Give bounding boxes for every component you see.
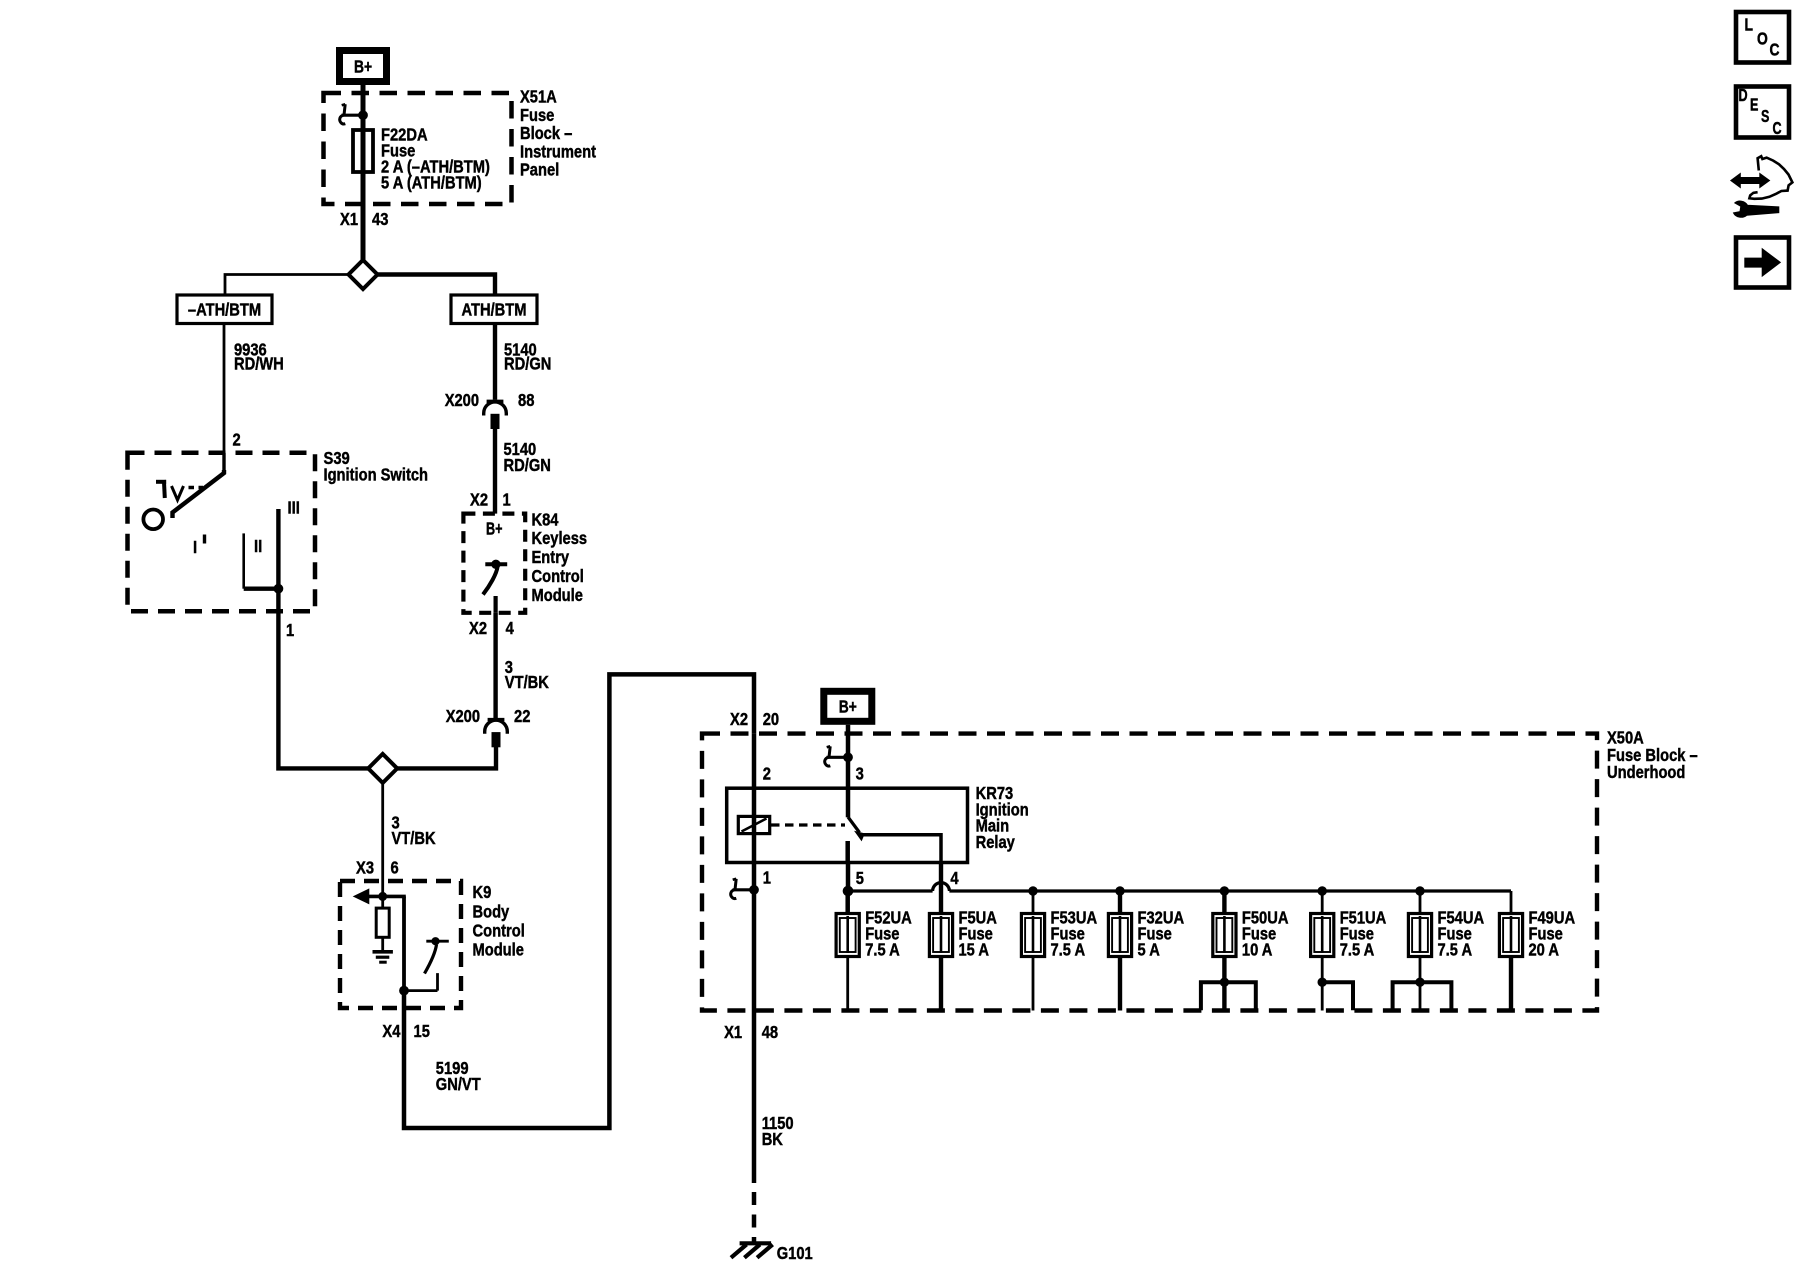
fuse F53UA 7.5A xyxy=(1021,891,1097,1011)
wire relay pin 1 to X1-48 xyxy=(752,863,757,1184)
splice S1 (diamond) xyxy=(349,260,378,289)
fuse block X51A dashed outline xyxy=(324,93,512,204)
svg-text:X2: X2 xyxy=(730,709,748,729)
LOC icon xyxy=(1736,12,1789,63)
connector X200 terminal 22 xyxy=(485,720,508,747)
svg-text:RD/WH: RD/WH xyxy=(234,354,284,374)
wire 9936 RD/WH from -ATH/BTM to ignition switch xyxy=(223,324,226,453)
svg-text:II: II xyxy=(254,536,262,556)
svg-text:43: 43 xyxy=(372,209,389,229)
power symbol B+ (relay feed) xyxy=(824,691,872,721)
svg-text:Module: Module xyxy=(532,585,584,605)
svg-text:X2: X2 xyxy=(469,618,487,638)
splice S2 (diamond) xyxy=(368,754,397,783)
svg-text:III: III xyxy=(288,498,300,518)
wire pin 2 into ignition switch xyxy=(222,453,225,472)
terminal staple below F51UA xyxy=(1318,978,1353,1010)
svg-text:88: 88 xyxy=(518,390,535,410)
svg-text:Fuse: Fuse xyxy=(520,105,555,125)
svg-text:Ignition Switch: Ignition Switch xyxy=(324,464,429,484)
fuse F50UA 10A xyxy=(1213,891,1289,1011)
svg-text:2: 2 xyxy=(763,764,771,784)
terminal of relay pin 1 circuit xyxy=(731,879,759,899)
fuse supply bus from pin 5 xyxy=(843,883,1511,896)
ignition switch S39 dashed outline xyxy=(128,453,316,612)
svg-text:4: 4 xyxy=(506,618,514,638)
label module K9 name xyxy=(473,882,525,960)
ground symbol inside K9 xyxy=(373,952,393,962)
label wire 3 VT/BK (lower) xyxy=(392,813,436,849)
junction on bus at F54UA xyxy=(1416,887,1424,895)
movable contact circle of S39 xyxy=(143,510,163,530)
svg-text:S: S xyxy=(1761,106,1769,126)
wire 3 VT/BK from splice S2 to body control module xyxy=(381,783,384,897)
svg-text:O: O xyxy=(1757,29,1768,49)
relay coil KR73 xyxy=(738,816,769,833)
label wire 5199 GN/VT xyxy=(436,1058,481,1094)
wire relay pin 4 to fuse F5UA xyxy=(939,863,943,914)
wire B+ to relay pin 3 xyxy=(846,725,851,788)
label wire 3 VT/BK (upper) xyxy=(505,657,549,692)
switch inside K9 xyxy=(404,938,449,991)
svg-text:3: 3 xyxy=(856,764,864,784)
label module K84 name xyxy=(532,509,588,605)
svg-text:Control: Control xyxy=(473,921,525,941)
svg-text:2: 2 xyxy=(233,429,241,449)
svg-text:Entry: Entry xyxy=(532,547,570,567)
pull-up resistor inside K9 xyxy=(376,896,389,950)
label wire 1150 BK xyxy=(762,1113,794,1149)
wire from X200-22 down to splice S2 xyxy=(397,747,496,769)
wire splice to ATH/BTM branch xyxy=(378,275,496,296)
svg-text:D: D xyxy=(1739,85,1748,105)
svg-text:ATH/BTM: ATH/BTM xyxy=(462,300,527,320)
ignition main relay KR73 outline xyxy=(727,788,968,862)
svg-text:VT/BK: VT/BK xyxy=(505,672,549,692)
pin label X1 43 xyxy=(340,209,389,229)
label connector X200 terminal 88 xyxy=(445,390,535,410)
svg-text:L: L xyxy=(1745,15,1754,35)
svg-text:G101: G101 xyxy=(777,1243,813,1263)
svg-text:20: 20 xyxy=(763,709,780,729)
svg-text:6: 6 xyxy=(391,858,399,878)
label connector X200 terminal 22 xyxy=(446,706,531,726)
fuse F52UA 7.5A xyxy=(836,891,912,1011)
node ATH/BTM xyxy=(451,295,537,324)
label wire 5140 RD/GN (lower) xyxy=(504,439,551,475)
pin label X2 20 of X50A xyxy=(730,709,779,729)
svg-text:Block –: Block – xyxy=(520,123,573,143)
svg-text:15 A: 15 A xyxy=(959,940,990,960)
pin label X2 1 of K84 xyxy=(470,489,511,509)
svg-text:Keyless: Keyless xyxy=(532,528,588,548)
svg-text:7.5 A: 7.5 A xyxy=(865,940,900,960)
svg-text:Relay: Relay xyxy=(976,832,1015,852)
svg-text:E: E xyxy=(1750,95,1758,115)
wire 5140 RD/GN from ATH/BTM to connector X200 xyxy=(493,324,497,400)
DESC icon xyxy=(1736,85,1789,138)
fuse F22DA body xyxy=(353,130,373,172)
svg-text:5 A: 5 A xyxy=(1138,940,1161,960)
svg-text:RD/GN: RD/GN xyxy=(504,354,551,374)
svg-text:15: 15 xyxy=(414,1021,431,1041)
svg-text:GN/VT: GN/VT xyxy=(436,1074,481,1094)
label switch S39 name xyxy=(324,448,429,484)
svg-text:Control: Control xyxy=(532,566,584,586)
wire inside K9 from input to switch xyxy=(400,896,409,995)
position contact II wire xyxy=(242,533,245,588)
pin label X2 4 of K84 xyxy=(469,618,514,638)
svg-text:5: 5 xyxy=(856,868,864,888)
pin label X4 15 of K9 xyxy=(382,1021,430,1041)
svg-text:K84: K84 xyxy=(532,509,559,529)
svg-text:X200: X200 xyxy=(445,390,480,410)
relay armature from pin 3 xyxy=(848,788,865,862)
junction on bus at F50UA xyxy=(1220,887,1228,895)
pin label X1 48 xyxy=(724,1022,778,1042)
label wire 9936 RD/WH xyxy=(234,340,284,374)
body control module K9 dashed outline xyxy=(340,881,461,1008)
label fuse F22DA value xyxy=(381,125,490,193)
svg-text:Module: Module xyxy=(473,940,525,960)
svg-text:1: 1 xyxy=(763,868,771,888)
svg-text:Underhood: Underhood xyxy=(1607,762,1685,782)
diagnostic navigation icon xyxy=(1731,156,1793,217)
svg-text:C: C xyxy=(1770,40,1780,60)
svg-text:B+: B+ xyxy=(839,697,857,717)
wire 5199 GN/VT from K9 to relay coil xyxy=(404,674,754,1128)
fuse F51UA 7.5A xyxy=(1311,891,1387,1011)
svg-text:7.5 A: 7.5 A xyxy=(1051,940,1086,960)
svg-text:7.5 A: 7.5 A xyxy=(1340,940,1375,960)
svg-text:1: 1 xyxy=(286,620,294,640)
svg-text:BK: BK xyxy=(762,1129,783,1149)
label relay KR73 name xyxy=(976,783,1029,852)
fuse F54UA 7.5A xyxy=(1408,891,1484,1011)
svg-text:4: 4 xyxy=(950,868,958,888)
node -ATH/BTM xyxy=(177,295,272,324)
svg-text:48: 48 xyxy=(762,1022,779,1042)
wire X2-20 to relay pin 2 xyxy=(752,734,757,789)
connector X200 terminal 88 xyxy=(484,401,507,428)
svg-text:X4: X4 xyxy=(382,1021,400,1041)
junction on bus at F32UA xyxy=(1116,887,1124,895)
wire splice to -ATH/BTM branch xyxy=(225,275,349,296)
power symbol B+ (battery feed, instrument panel) xyxy=(340,51,387,82)
relay fixed contact to pin 4 xyxy=(861,835,941,863)
terminal staple below F54UA xyxy=(1393,978,1452,1010)
fuse block X50A dashed outline xyxy=(702,734,1597,1011)
svg-text:X3: X3 xyxy=(356,858,374,878)
wire 5140 RD/GN from X200 to keyless module xyxy=(493,429,497,514)
wire relay pin 2 through coil to pin 1 xyxy=(752,788,757,862)
wire 3 VT/BK from K84 to connector X200 xyxy=(493,613,497,718)
svg-text:X1: X1 xyxy=(724,1022,742,1042)
svg-text:22: 22 xyxy=(514,706,531,726)
terminal staple below F50UA xyxy=(1201,978,1256,1010)
svg-text:X51A: X51A xyxy=(520,87,557,107)
next-page arrow icon xyxy=(1736,238,1789,288)
svg-text:20 A: 20 A xyxy=(1529,940,1560,960)
svg-text:5 A (ATH/BTM): 5 A (ATH/BTM) xyxy=(381,173,482,193)
wire 1150 BK dashed continuation xyxy=(752,1192,757,1243)
signal arrow inside K9 xyxy=(354,889,406,903)
svg-text:7.5 A: 7.5 A xyxy=(1438,940,1473,960)
pin label X3 6 of K9 xyxy=(356,858,399,878)
label fuse block X51A name xyxy=(520,87,596,180)
ignition key symbol xyxy=(156,480,203,500)
ground symbol G101 xyxy=(731,1243,773,1257)
fuse F5UA 15A xyxy=(929,908,997,1011)
fuse F49UA 20A xyxy=(1499,891,1575,1011)
svg-text:K9: K9 xyxy=(473,882,492,902)
svg-text:X2: X2 xyxy=(470,489,488,509)
position label I xyxy=(193,535,205,558)
switch inside K84 xyxy=(483,560,507,613)
svg-text:I: I xyxy=(193,537,197,557)
relay actuation dashed link xyxy=(771,823,845,826)
svg-text:–ATH/BTM: –ATH/BTM xyxy=(188,300,261,320)
junction on bus at F51UA xyxy=(1318,887,1326,895)
position contact III wire and junction to pin 1 xyxy=(244,509,283,593)
terminal of B+ feed in X50A xyxy=(825,746,853,766)
keyless entry control module K84 dashed outline xyxy=(463,514,525,613)
label fuse block X50A name xyxy=(1607,728,1698,783)
fuse F32UA 5A xyxy=(1108,891,1184,1011)
svg-text:10 A: 10 A xyxy=(1242,940,1273,960)
svg-text:RD/GN: RD/GN xyxy=(504,455,551,475)
wire pin 1 of S39 down to splice S2 xyxy=(278,589,368,769)
svg-text:X200: X200 xyxy=(446,706,481,726)
svg-text:1: 1 xyxy=(503,489,511,509)
switch blade of S39 xyxy=(173,470,225,518)
wire relay pin 5 to fuse bus xyxy=(846,863,851,892)
svg-text:X1: X1 xyxy=(340,209,358,229)
svg-text:B+: B+ xyxy=(486,519,503,539)
terminal of fuse block X51A xyxy=(340,104,368,124)
label wire 5140 RD/GN (upper) xyxy=(504,340,551,374)
svg-text:VT/BK: VT/BK xyxy=(392,828,436,848)
wire B+ feed through fuse F22DA down to splice xyxy=(361,85,366,261)
svg-text:Panel: Panel xyxy=(520,160,559,180)
svg-text:Body: Body xyxy=(473,902,510,922)
svg-text:Instrument: Instrument xyxy=(520,141,596,161)
svg-text:B+: B+ xyxy=(354,57,372,77)
svg-text:C: C xyxy=(1773,118,1782,138)
junction on bus at F53UA xyxy=(1029,887,1037,895)
